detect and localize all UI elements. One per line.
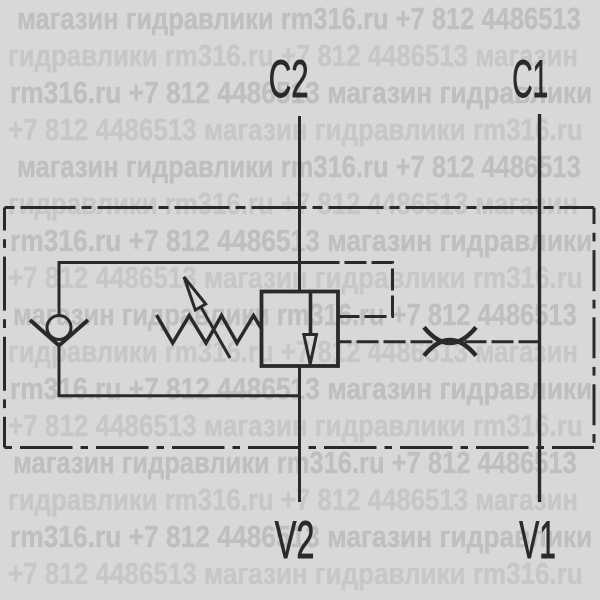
svg-text:V1: V1 bbox=[519, 511, 556, 570]
check valve ball bbox=[47, 316, 71, 340]
wire check valve lower stem bbox=[58, 344, 61, 397]
pilot dashed line lower (to throttle and C1) bbox=[339, 340, 540, 343]
wire check valve upper stem bbox=[58, 261, 61, 315]
wire C1 vertical bbox=[538, 114, 541, 502]
wire C2 upper vertical bbox=[298, 116, 301, 292]
throttle lower arc bbox=[424, 340, 476, 356]
enclosure dashed top edge bbox=[5, 206, 595, 209]
svg-text:C2: C2 bbox=[269, 51, 309, 109]
adjustment arrow shaft bbox=[200, 306, 230, 358]
check valve seat bbox=[30, 320, 88, 346]
spring (adjustable) bbox=[157, 315, 262, 343]
enclosure dashed right edge bbox=[593, 208, 596, 448]
valve closed-position arrow bbox=[304, 335, 317, 365]
enclosure dashed left edge bbox=[3, 208, 6, 448]
enclosure dashed bottom edge bbox=[5, 446, 595, 449]
valve body U1 bbox=[262, 292, 339, 367]
wire C2 lower vertical bbox=[298, 366, 301, 502]
pilot dashed line upper (to spring side) bbox=[318, 263, 393, 317]
wire bottom horizontal of branch bbox=[58, 394, 300, 397]
svg-text:V2: V2 bbox=[275, 511, 315, 570]
wire top horizontal (check valve branch to pilot) bbox=[59, 261, 318, 264]
valve inner flow line bbox=[309, 292, 313, 334]
throttle upper arc bbox=[424, 327, 476, 343]
svg-text:C1: C1 bbox=[512, 50, 548, 109]
adjustment arrow head bbox=[184, 277, 206, 310]
